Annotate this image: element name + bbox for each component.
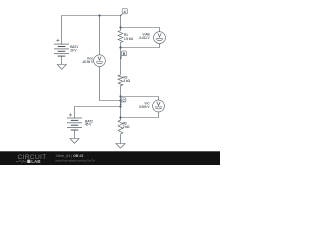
voltmeter probe V-C [153,100,165,112]
resistor R2 [118,75,123,86]
svg-text:-0.311 V: -0.311 V [139,36,151,40]
junction at top rail / V-ce [98,14,100,16]
svg-text:20 V: 20 V [70,49,77,53]
ground under BAT1 [57,65,66,70]
ground under BAT2 [70,139,79,144]
wire V-C bottom [121,112,159,118]
ground under R3 [116,144,125,149]
junction at R1 bottom [119,46,121,48]
footer logo LAB box [27,160,30,163]
svg-text:0.000 V: 0.000 V [139,105,150,109]
node C flag [120,98,126,105]
svg-text:45 V: 45 V [85,123,92,127]
svg-text:LAB: LAB [31,159,41,164]
footer logo squiggle [16,160,27,162]
battery BAT1 [54,39,69,56]
battery BAT2 [67,113,82,130]
svg-text:http://circuitlab.com/cm2cr7e: http://circuitlab.com/cm2cr7e [56,158,96,162]
junction at R1 top [119,26,121,28]
junction at V-C top [119,95,121,97]
svg-text:2 kΩ: 2 kΩ [123,125,130,129]
svg-text:1.5 kΩ: 1.5 kΩ [124,37,134,41]
node B flag [120,51,127,59]
wire BAT1 to ground [61,56,63,64]
wire BAT2 top lead [75,107,121,119]
voltmeter probe V-ce [94,55,106,67]
wire V-AB top [121,28,160,32]
wire V-AB bottom [121,44,160,48]
wire V-ce top lead [99,16,101,55]
svg-text:24ber_64 | OB #2: 24ber_64 | OB #2 [56,154,84,158]
wire BAT1 top lead [61,16,63,45]
V glyph of probe V-AB [158,33,161,37]
resistor R1 [118,31,123,43]
V glyph of probe V-ce [98,57,101,61]
junction at BAT2 wire [119,105,121,107]
footer bar [0,151,220,165]
wire V-ce bottom lead [100,67,121,101]
svg-text:-20.93 V: -20.93 V [82,60,94,64]
V glyph of probe V-C [157,102,160,106]
resistor R3 [118,120,123,134]
node A flag [120,9,127,17]
junction at V-C bottom [119,116,121,118]
junction at V-ce wire [119,99,121,101]
voltmeter probe V-AB [154,32,166,44]
svg-text:3 kΩ: 3 kΩ [123,79,130,83]
wire main vertical [120,16,122,144]
wire top rail [62,15,121,17]
wire BAT2 to ground [74,130,76,139]
wire V-C top [121,97,159,101]
